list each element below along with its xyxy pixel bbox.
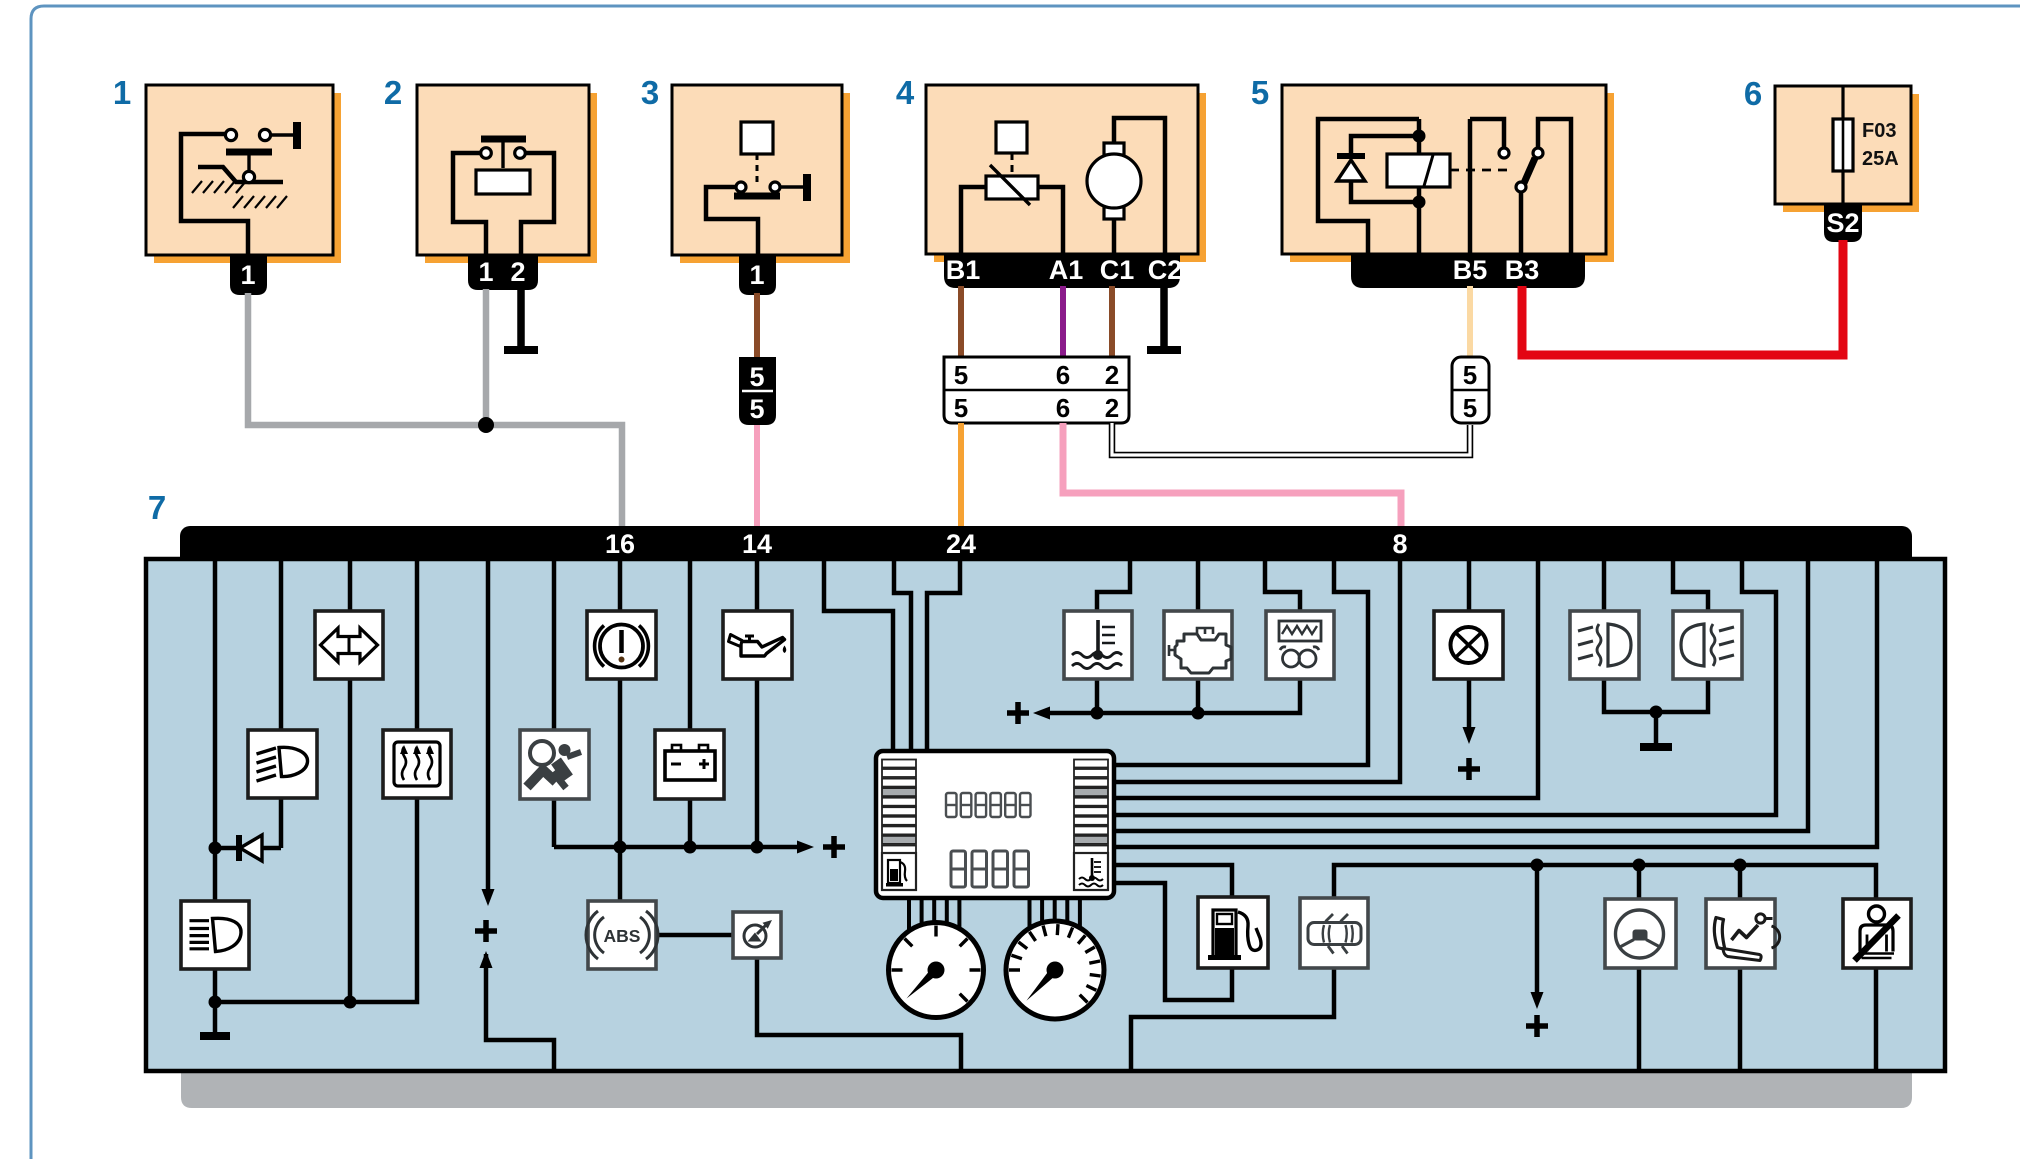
front fog light icon — [1570, 611, 1639, 679]
white wire from pin 2 to connector 5/5 of component 5 — [1112, 423, 1470, 455]
svg-text:24: 24 — [946, 529, 976, 559]
wire brake warning to ABS icon — [618, 679, 623, 901]
wire battery to plus bus — [688, 798, 693, 847]
svg-text:16: 16 — [605, 529, 635, 559]
continuation wire with up arrow to bottom edge — [480, 951, 493, 968]
coolant temperature icon — [1064, 611, 1132, 679]
component 5 relay coil — [1387, 154, 1450, 187]
svg-text:C1: C1 — [1100, 255, 1135, 285]
speedometer gauge — [889, 923, 984, 1018]
svg-text:1: 1 — [478, 257, 493, 287]
svg-text:5: 5 — [1463, 393, 1477, 423]
wire pin to plus arrow (down) — [486, 558, 491, 896]
plus bus with arrow right — [554, 845, 806, 850]
component 5 diode — [1337, 160, 1365, 181]
lamp failure indicator icon — [1434, 611, 1503, 679]
LCD line 7 to fuel icon top — [1114, 865, 1232, 897]
svg-text:B1: B1 — [946, 255, 981, 285]
component 4: fuel gauge sender and pump box — [934, 93, 1206, 262]
brake warning indicator icon — [587, 611, 656, 679]
svg-text:6: 6 — [1056, 393, 1070, 423]
connector 5/5 below component 3 — [739, 357, 776, 425]
component 4 fuel pump motor — [1114, 118, 1165, 254]
wire pin 16 to brake warning icon — [618, 558, 623, 611]
svg-text:2: 2 — [1105, 393, 1119, 423]
wire steering assist icon to bottom edge — [757, 958, 961, 1071]
wire pin to front fog icon — [1602, 558, 1607, 611]
svg-text:1: 1 — [113, 74, 131, 111]
svg-text:4: 4 — [896, 74, 915, 111]
heated rear window indicator icon — [383, 730, 451, 798]
brown wire C1 — [1109, 286, 1115, 357]
wire pin to LCD nest line 5 — [1114, 558, 1808, 831]
door open icon — [1300, 898, 1368, 968]
seat belt icon bottom wire — [1874, 968, 1879, 1071]
airbag warning icon — [520, 730, 589, 799]
LCD display module — [876, 751, 1114, 898]
ABS warning icon — [588, 901, 656, 969]
LCD fuel pump symbol cell — [882, 853, 916, 890]
wire pin to LCD middle — [894, 558, 911, 753]
wires LCD to speedometer — [909, 898, 959, 930]
svg-text:1: 1 — [240, 260, 255, 290]
steering wheel icon — [1605, 899, 1676, 968]
component 3: oil pressure switch box — [680, 93, 850, 263]
component 4 sender: square + variable resistor — [996, 122, 1027, 153]
svg-text:5: 5 — [1251, 74, 1269, 111]
wire pin to engine icon — [1196, 558, 1201, 611]
bottom gray shadow bar — [181, 1071, 1912, 1108]
glow plug indicator icon — [1266, 611, 1334, 679]
component 5: fuel pump relay box — [1290, 93, 1614, 262]
wire pin to LCD nest line 6 — [1114, 558, 1877, 847]
black ground wire C2 — [1160, 286, 1168, 346]
wire pin 14 to oil icon — [755, 558, 760, 611]
wires LCD to tachometer — [1030, 898, 1080, 930]
component 5 pins B5 B3 — [1351, 254, 1585, 288]
svg-text:C2: C2 — [1148, 255, 1183, 285]
svg-text:ABS: ABS — [604, 926, 641, 946]
brown wire B1 — [958, 286, 964, 357]
component 2: pressure switch box — [425, 93, 597, 263]
purple wire A1 — [1060, 286, 1066, 357]
junction on gray wire — [478, 417, 494, 433]
component 5 switch contacts — [1470, 119, 1504, 148]
drop from bus to plus — [1535, 865, 1540, 999]
svg-text:6: 6 — [1056, 360, 1070, 390]
component 4 pins B1 A1 C1 C2 — [944, 254, 1180, 288]
tachometer gauge — [1006, 921, 1104, 1019]
glow plug to plus-left bus with left arrow — [1041, 679, 1300, 713]
wire pin to LCD nest line 3 — [1114, 558, 1538, 798]
diode — [240, 835, 262, 861]
ground wire component 2 pin 2 — [517, 289, 525, 346]
steering wheel icon wires — [1637, 865, 1642, 1071]
seat icon wires — [1738, 865, 1743, 1071]
wire heated rear window to bottom bus — [215, 798, 417, 1002]
svg-text:8: 8 — [1392, 529, 1407, 559]
orange wire to pin 24 — [958, 423, 964, 527]
svg-text:3: 3 — [641, 74, 659, 111]
oil pressure warning icon — [723, 611, 792, 679]
wire airbag to plus bus — [552, 798, 557, 847]
svg-text:2: 2 — [384, 74, 402, 111]
LCD coolant symbol cell — [1074, 853, 1108, 890]
wire coolant icon to plus-left bus — [1095, 679, 1100, 713]
svg-text:7: 7 — [148, 489, 166, 526]
pink wire to pin 14 — [754, 425, 760, 527]
wire pin to LCD nest line 4 — [1114, 558, 1776, 815]
wire ABS icon to steering assist icon — [656, 933, 733, 938]
cluster body — [146, 559, 1945, 1071]
connector 5/5 below component 5 — [1452, 357, 1489, 423]
component 1: brake fluid level switch box — [154, 93, 341, 263]
cluster connector bar — [180, 526, 1912, 560]
LCD line 8 to fuel icon bottom — [1114, 883, 1232, 1000]
fuse symbol — [1841, 86, 1844, 204]
svg-text:F03: F03 — [1862, 120, 1896, 142]
wire oil icon to plus bus — [755, 679, 760, 847]
connector 5 6 2 below component 4 — [944, 357, 1129, 423]
wire pin to lamp failure icon — [1467, 558, 1472, 611]
wire turn signal icon to bottom bus — [348, 679, 353, 1002]
diode wire high beam to low beam chain — [279, 798, 284, 848]
engine warning icon — [1164, 611, 1232, 679]
component 6 pin S2 — [1824, 204, 1862, 242]
svg-text:2: 2 — [510, 257, 525, 287]
svg-text:25A: 25A — [1862, 148, 1899, 170]
door icon bottom wire — [1131, 966, 1334, 1071]
fuel level icon — [1198, 897, 1268, 968]
LCD right bar column — [1074, 760, 1108, 768]
wire pin to turn signal icon — [348, 558, 353, 611]
gray wire from component 1 pin 1 and component 2 pin 1 to pin 16 — [248, 293, 622, 527]
svg-text:S2: S2 — [1826, 208, 1859, 238]
turn signal indicator icon — [315, 611, 383, 679]
seat belt warning icon — [1843, 899, 1911, 968]
beige wire B5 — [1467, 286, 1473, 357]
lamp failure icon to plus (down arrow) — [1467, 679, 1472, 734]
svg-text:5: 5 — [749, 362, 764, 392]
LCD trip digits 8888 — [951, 851, 966, 887]
component 6: fuse F03 25A box — [1783, 94, 1919, 212]
LCD odometer digits 888888 — [946, 793, 957, 817]
high beam indicator icon — [248, 730, 317, 798]
rear fog light icon — [1673, 611, 1742, 679]
component 5 internal relay circuit — [1318, 119, 1419, 254]
seat belt tensioner icon — [1706, 899, 1775, 968]
wire low beam bottom to ground — [213, 967, 218, 1033]
wire pin to airbag icon — [552, 558, 557, 730]
wire pin to LCD left (jog) — [824, 558, 893, 753]
wire pin to glow plug icon — [1265, 558, 1300, 611]
steering assist icon — [733, 912, 781, 958]
wire pin to rear fog icon — [1673, 558, 1708, 611]
wire pin to low beam chain — [213, 558, 218, 901]
svg-text:14: 14 — [742, 529, 772, 559]
component 2 internal switch symbol — [481, 136, 526, 143]
wire pin to high beam icon — [279, 558, 284, 730]
component 3 pin 1 connector — [739, 255, 776, 295]
pink wire to pin 8 — [1063, 423, 1401, 527]
svg-text:A1: A1 — [1049, 255, 1084, 285]
LCD left bar column — [882, 760, 916, 768]
svg-text:2: 2 — [1105, 360, 1119, 390]
svg-text:1: 1 — [749, 260, 764, 290]
wire engine icon to plus-left bus — [1196, 679, 1201, 713]
battery warning icon — [655, 730, 724, 799]
wire pin to coolant icon — [1097, 558, 1130, 611]
component 2 pins 1 2 connector — [468, 255, 538, 290]
wire pin 24 to LCD — [927, 558, 960, 753]
svg-text:B5: B5 — [1453, 255, 1488, 285]
right bus: door icon, plus drop, steering wheel, seat, seat belt — [1334, 865, 1876, 899]
component 3 internal switch symbol — [741, 122, 773, 154]
svg-text:5: 5 — [954, 393, 968, 423]
wire pin to battery icon — [688, 558, 693, 730]
svg-text:B3: B3 — [1505, 255, 1540, 285]
component 1 internal switch symbol — [181, 134, 248, 258]
fog icons to ground — [1604, 679, 1708, 712]
svg-text:5: 5 — [1463, 360, 1477, 390]
red wire B3 to S2 — [1522, 240, 1843, 355]
wire pin to heated rear window icon — [415, 558, 420, 730]
svg-text:6: 6 — [1744, 75, 1762, 112]
wire pin 8 to LCD nest line 2 — [1114, 558, 1400, 782]
wire pin to LCD nest line 1 — [1114, 558, 1368, 765]
svg-text:5: 5 — [749, 394, 764, 424]
svg-text:5: 5 — [954, 360, 968, 390]
component 1 pin 1 connector — [230, 255, 267, 295]
brown wire component 3 pin 1 — [754, 293, 760, 357]
low beam indicator icon — [181, 901, 249, 969]
